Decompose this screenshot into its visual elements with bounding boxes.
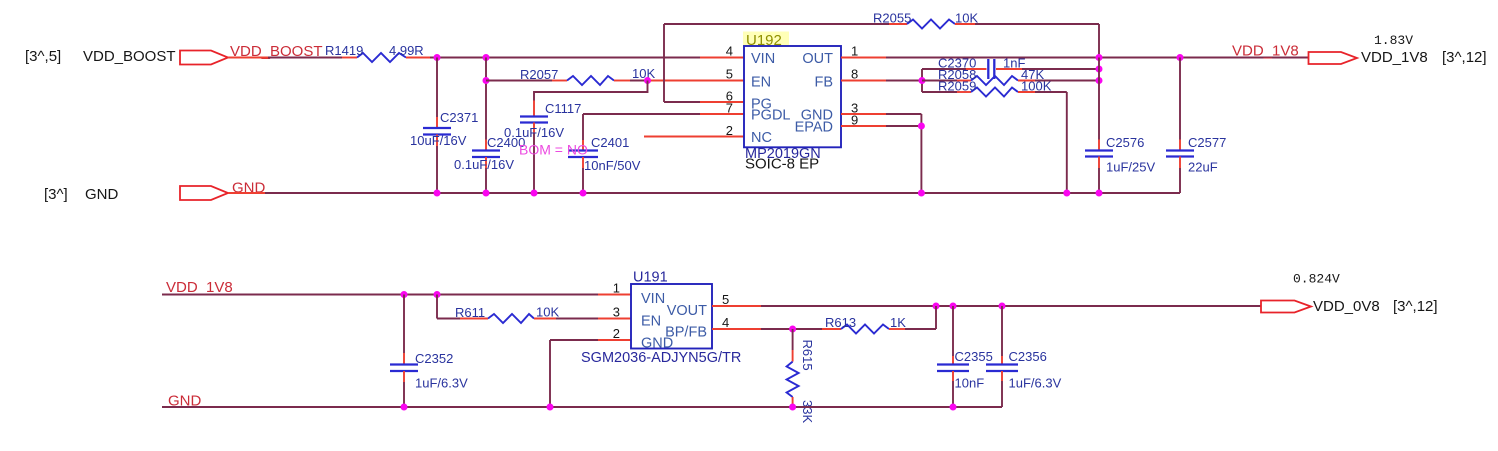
wire pin3/pin9 to GND [920, 114, 922, 193]
junction node EN tap [483, 77, 490, 84]
svg-text:C2371: C2371 [440, 110, 478, 125]
svg-text:10K: 10K [536, 305, 559, 320]
svg-text:[3^]: [3^] [44, 186, 68, 203]
svg-text:R2057: R2057 [520, 67, 558, 82]
svg-text:5: 5 [726, 67, 733, 82]
resistor R2058 47K [922, 67, 1099, 85]
wire FB pin8 [841, 80, 886, 82]
svg-text:1uF/6.3V: 1uF/6.3V [415, 376, 468, 391]
junction GND-EPAD [918, 190, 925, 197]
svg-text:100K: 100K [1021, 79, 1052, 94]
svg-text:5: 5 [722, 292, 729, 307]
svg-text:VIN: VIN [641, 291, 665, 307]
pin 1 stub U191 [598, 294, 631, 296]
svg-text:VDD_BOOST: VDD_BOOST [83, 48, 176, 65]
svg-text:R2055: R2055 [873, 11, 911, 26]
svg-text:4.99R: 4.99R [389, 43, 424, 58]
wire VIN rail [430, 57, 700, 59]
resistor R2055 10K [873, 11, 978, 29]
svg-text:R2059: R2059 [938, 79, 976, 94]
resistor R2059 100K [922, 79, 1067, 194]
svg-text:22uF: 22uF [1188, 160, 1218, 175]
svg-text:1uF/25V: 1uF/25V [1106, 160, 1155, 175]
junction node OUT a [1096, 54, 1103, 61]
capacitor C2356 1uF/6.3V [986, 306, 1062, 407]
pin 2 NC stub [644, 136, 744, 138]
svg-text:[3^,12]: [3^,12] [1442, 49, 1487, 66]
svg-text:C2352: C2352 [415, 351, 453, 366]
op-amp U191 SGM2036 body [581, 270, 741, 367]
svg-text:10nF: 10nF [955, 376, 985, 391]
svg-text:NC: NC [751, 130, 772, 146]
junction R2058 right [1096, 77, 1103, 84]
svg-text:C2356: C2356 [1009, 349, 1047, 364]
junction node OUT b [1177, 54, 1184, 61]
wire BP/FB pin4 [712, 328, 761, 330]
wire EPAD pin9 [841, 125, 886, 127]
junction GND-R615 [789, 404, 796, 411]
svg-text:10nF/50V: 10nF/50V [584, 158, 641, 173]
junction GND-C2401 [580, 190, 587, 197]
pin 3 stub U191 [598, 318, 631, 320]
svg-text:2: 2 [726, 123, 733, 138]
svg-text:BOM = NO: BOM = NO [519, 142, 588, 158]
svg-text:8: 8 [851, 67, 858, 82]
junction node EPAD [918, 123, 925, 130]
wire GND rail bottom [162, 406, 1002, 408]
svg-text:1uF/6.3V: 1uF/6.3V [1009, 376, 1062, 391]
svg-text:1.83V: 1.83V [1374, 33, 1413, 48]
svg-text:[3^,5]: [3^,5] [25, 48, 61, 65]
wire VDD_1V8 rail [162, 294, 598, 296]
junction node FB [919, 77, 926, 84]
junction GND-C2576 [1096, 190, 1103, 197]
wire EN to pin 5 [648, 80, 744, 82]
wire GND rail top [228, 192, 265, 194]
svg-text:SOIC-8 EP: SOIC-8 EP [745, 156, 819, 173]
svg-text:R613: R613 [825, 315, 856, 330]
svg-text:R1419: R1419 [325, 43, 363, 58]
pin 2 stub U191 [598, 339, 631, 341]
wire PG [700, 101, 744, 103]
svg-text:33K: 33K [800, 400, 815, 423]
svg-text:VDD_1V8: VDD_1V8 [1232, 43, 1299, 60]
svg-text:EN: EN [641, 314, 661, 330]
capacitor C2400 0.1uF/16V [454, 58, 525, 194]
svg-text:EPAD: EPAD [795, 120, 833, 136]
svg-text:[3^,12]: [3^,12] [1393, 298, 1438, 315]
svg-text:0.824V: 0.824V [1293, 272, 1340, 287]
svg-text:VDD_1V8: VDD_1V8 [166, 279, 233, 296]
junction GND-C2352 [401, 404, 408, 411]
svg-text:0.1uF/16V: 0.1uF/16V [454, 157, 514, 172]
svg-text:SGM2036-ADJYN5G/TR: SGM2036-ADJYN5G/TR [581, 350, 741, 366]
junction rail a [401, 291, 408, 298]
wire pin2 GND [550, 339, 598, 341]
junction VOUT b [950, 303, 957, 310]
svg-text:EN: EN [751, 75, 771, 91]
svg-text:R615: R615 [800, 340, 815, 371]
junction GND-U191pin2 [547, 404, 554, 411]
svg-text:C2577: C2577 [1188, 135, 1226, 150]
capacitor C2370 1nF [922, 56, 1099, 80]
svg-text:R611: R611 [455, 305, 485, 320]
port VDD_0V8 [1261, 301, 1311, 313]
svg-text:1K: 1K [890, 315, 906, 330]
junction GND-C2400 [483, 190, 490, 197]
svg-text:4: 4 [726, 44, 733, 59]
resistor R613 1K [822, 306, 936, 334]
junction GND-C2371 [434, 190, 441, 197]
resistor R1419 4.99R [325, 43, 430, 62]
svg-text:7: 7 [726, 101, 733, 116]
wire GND pin3 [841, 113, 886, 115]
capacitor C2577 22uF [1166, 58, 1226, 194]
svg-text:VOUT: VOUT [667, 303, 707, 319]
pin 4 stub [700, 57, 744, 59]
svg-text:3: 3 [613, 305, 620, 320]
junction GND-R2059 [1063, 190, 1070, 197]
svg-text:10K: 10K [632, 66, 655, 81]
capacitor C2352 1uF/6.3V [390, 295, 468, 408]
resistor R2057 10K [486, 66, 655, 85]
svg-text:VDD_1V8: VDD_1V8 [1361, 49, 1428, 66]
junction node VIN a [434, 54, 441, 61]
node FB vertical [921, 69, 923, 92]
svg-text:OUT: OUT [802, 51, 833, 67]
svg-text:C2401: C2401 [591, 135, 629, 150]
svg-text:10uF/16V: 10uF/16V [410, 133, 467, 148]
capacitor C2371 10uF/16V [410, 58, 478, 194]
wire VOUT pin5 [712, 305, 761, 307]
junction C2370 right [1096, 66, 1103, 73]
junction GND-C1117 [531, 190, 538, 197]
svg-text:C1117: C1117 [545, 101, 581, 116]
wire R2055 to OUT node [975, 23, 1099, 25]
svg-text:1: 1 [851, 44, 858, 59]
svg-text:FB: FB [814, 75, 833, 91]
resistor R615 33K [787, 329, 815, 423]
junction rail b [434, 291, 441, 298]
svg-text:VDD_0V8: VDD_0V8 [1313, 298, 1380, 315]
wire VDD_BOOST [228, 57, 268, 59]
svg-text:GND: GND [85, 186, 119, 203]
junction node VIN b [483, 54, 490, 61]
svg-text:VIN: VIN [751, 51, 775, 67]
svg-text:10K: 10K [955, 11, 978, 26]
capacitor C2401 10nF/50V [568, 135, 641, 193]
capacitor C2576 1uF/25V [1085, 58, 1155, 194]
capacitor C2355 10nF [937, 306, 993, 407]
wire PGDL [700, 113, 744, 115]
svg-text:2: 2 [613, 326, 620, 341]
capacitor C1117 0.1uF/16V [504, 81, 648, 194]
resistor R611 10K [437, 295, 598, 324]
junction node EN [644, 77, 651, 84]
op-amp U192 MP2019GN body [743, 32, 841, 173]
junction GND-C2355 [950, 404, 957, 411]
junction VOUT a [933, 303, 940, 310]
junction node FB2 [789, 326, 796, 333]
wire OUT pin1 [841, 57, 886, 59]
svg-text:0.1uF/16V: 0.1uF/16V [504, 125, 564, 140]
svg-text:PGDL: PGDL [751, 108, 791, 124]
svg-text:4: 4 [722, 315, 729, 330]
svg-text:C2355: C2355 [955, 349, 993, 364]
port GND [180, 186, 228, 200]
port VDD_BOOST [180, 51, 228, 65]
svg-text:1: 1 [613, 281, 620, 296]
junction VOUT c [999, 303, 1006, 310]
svg-text:C2576: C2576 [1106, 135, 1144, 150]
